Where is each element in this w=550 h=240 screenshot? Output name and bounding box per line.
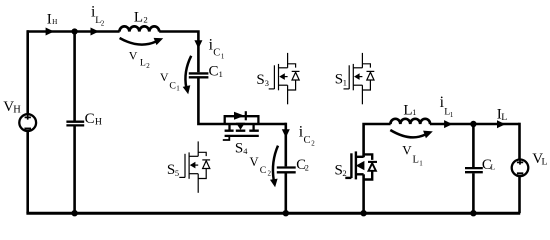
svg-text:C: C [304,135,311,146]
svg-text:L: L [542,157,548,168]
svg-text:V: V [250,155,259,169]
transistor S2 (bold MOSFET with body diode) [345,151,377,179]
transistor S3 [269,53,300,104]
voltage arc vC2 [273,146,278,180]
wire S2 source to bottom rail [362,174,365,213]
wire VL branch lower [518,177,521,214]
transistor S1 [344,53,375,104]
node junction dot CH bottom [71,210,77,216]
capacitor C1 [189,73,209,77]
svg-text:H: H [95,117,102,128]
voltage arc vL2 [120,38,156,45]
node junction dot S2 bottom [360,210,366,216]
svg-text:5: 5 [175,169,179,178]
voltage source VH [19,114,36,131]
svg-text:2: 2 [143,15,147,25]
svg-text:V: V [129,49,138,63]
svg-text:V: V [402,142,412,157]
svg-text:L: L [403,102,412,118]
svg-text:L: L [134,10,143,26]
wire C1 lower drop and middle rail to C2 [198,76,285,124]
node junction dot CL bottom [470,210,476,216]
current arrow iL2 [91,28,99,36]
svg-text:1: 1 [176,85,180,93]
svg-text:I: I [47,12,52,28]
svg-text:L: L [491,163,496,172]
wire right rail after L1 [430,123,520,126]
current arrow IL [497,120,505,128]
current arrow iC2 [282,129,290,137]
current arrow iC1 [194,40,202,48]
svg-text:1: 1 [343,79,347,88]
svg-text:C: C [260,165,267,176]
svg-text:1: 1 [419,159,423,167]
wire CH branch upper [73,32,76,121]
wire left vertical above VH source [26,30,29,114]
wire C2 branch lower [284,173,287,213]
svg-text:2: 2 [342,168,346,178]
voltage arc vC1 [185,56,191,88]
svg-text:L: L [413,155,419,166]
capacitor CH [66,122,84,126]
svg-text:2: 2 [311,139,315,147]
wire left vertical below VH source [26,132,29,214]
svg-text:L: L [140,57,146,68]
svg-text:H: H [52,18,57,26]
capacitor CL [465,168,483,172]
node junction dot at IH/CH [72,28,78,34]
switch S4 (MOSFET with series diode loop) [223,111,259,140]
svg-text:L: L [501,112,507,123]
wire CH branch lower [73,126,76,213]
svg-text:C: C [85,111,95,127]
wire CL branch upper [472,124,475,167]
svg-text:C: C [209,64,219,80]
transistor S5 [179,141,210,192]
wire bottom rail [26,212,520,215]
svg-text:V: V [160,70,169,84]
node junction dot C2 bottom [283,210,289,216]
svg-text:1: 1 [450,111,454,119]
svg-text:1: 1 [412,108,416,117]
wire VL branch upper [518,123,521,160]
voltage source VL [512,160,529,177]
svg-text:C: C [169,80,176,91]
svg-text:C: C [213,47,220,58]
wire top rail (VH top node to C1 drop) [27,30,120,33]
svg-text:2: 2 [146,62,150,70]
wire CL branch lower [472,173,475,213]
svg-text:2: 2 [101,19,105,27]
inductor L1 [390,119,430,124]
wire C2 branch upper [284,123,287,167]
capacitor C2 [277,168,296,173]
wire S2 drain to right rail [364,124,391,157]
voltage arc vL1 [390,130,425,137]
svg-text:S: S [256,72,264,88]
svg-text:1: 1 [219,69,223,79]
current arrow iL1 [444,120,452,128]
svg-text:3: 3 [265,79,269,88]
svg-text:2: 2 [305,163,309,172]
current arrow IH [46,28,54,36]
svg-text:2: 2 [268,170,272,178]
svg-text:1: 1 [221,53,225,61]
svg-text:H: H [13,105,21,116]
svg-text:S: S [235,140,243,156]
inductor L2 [119,26,159,31]
node junction dot CL top [470,121,476,127]
